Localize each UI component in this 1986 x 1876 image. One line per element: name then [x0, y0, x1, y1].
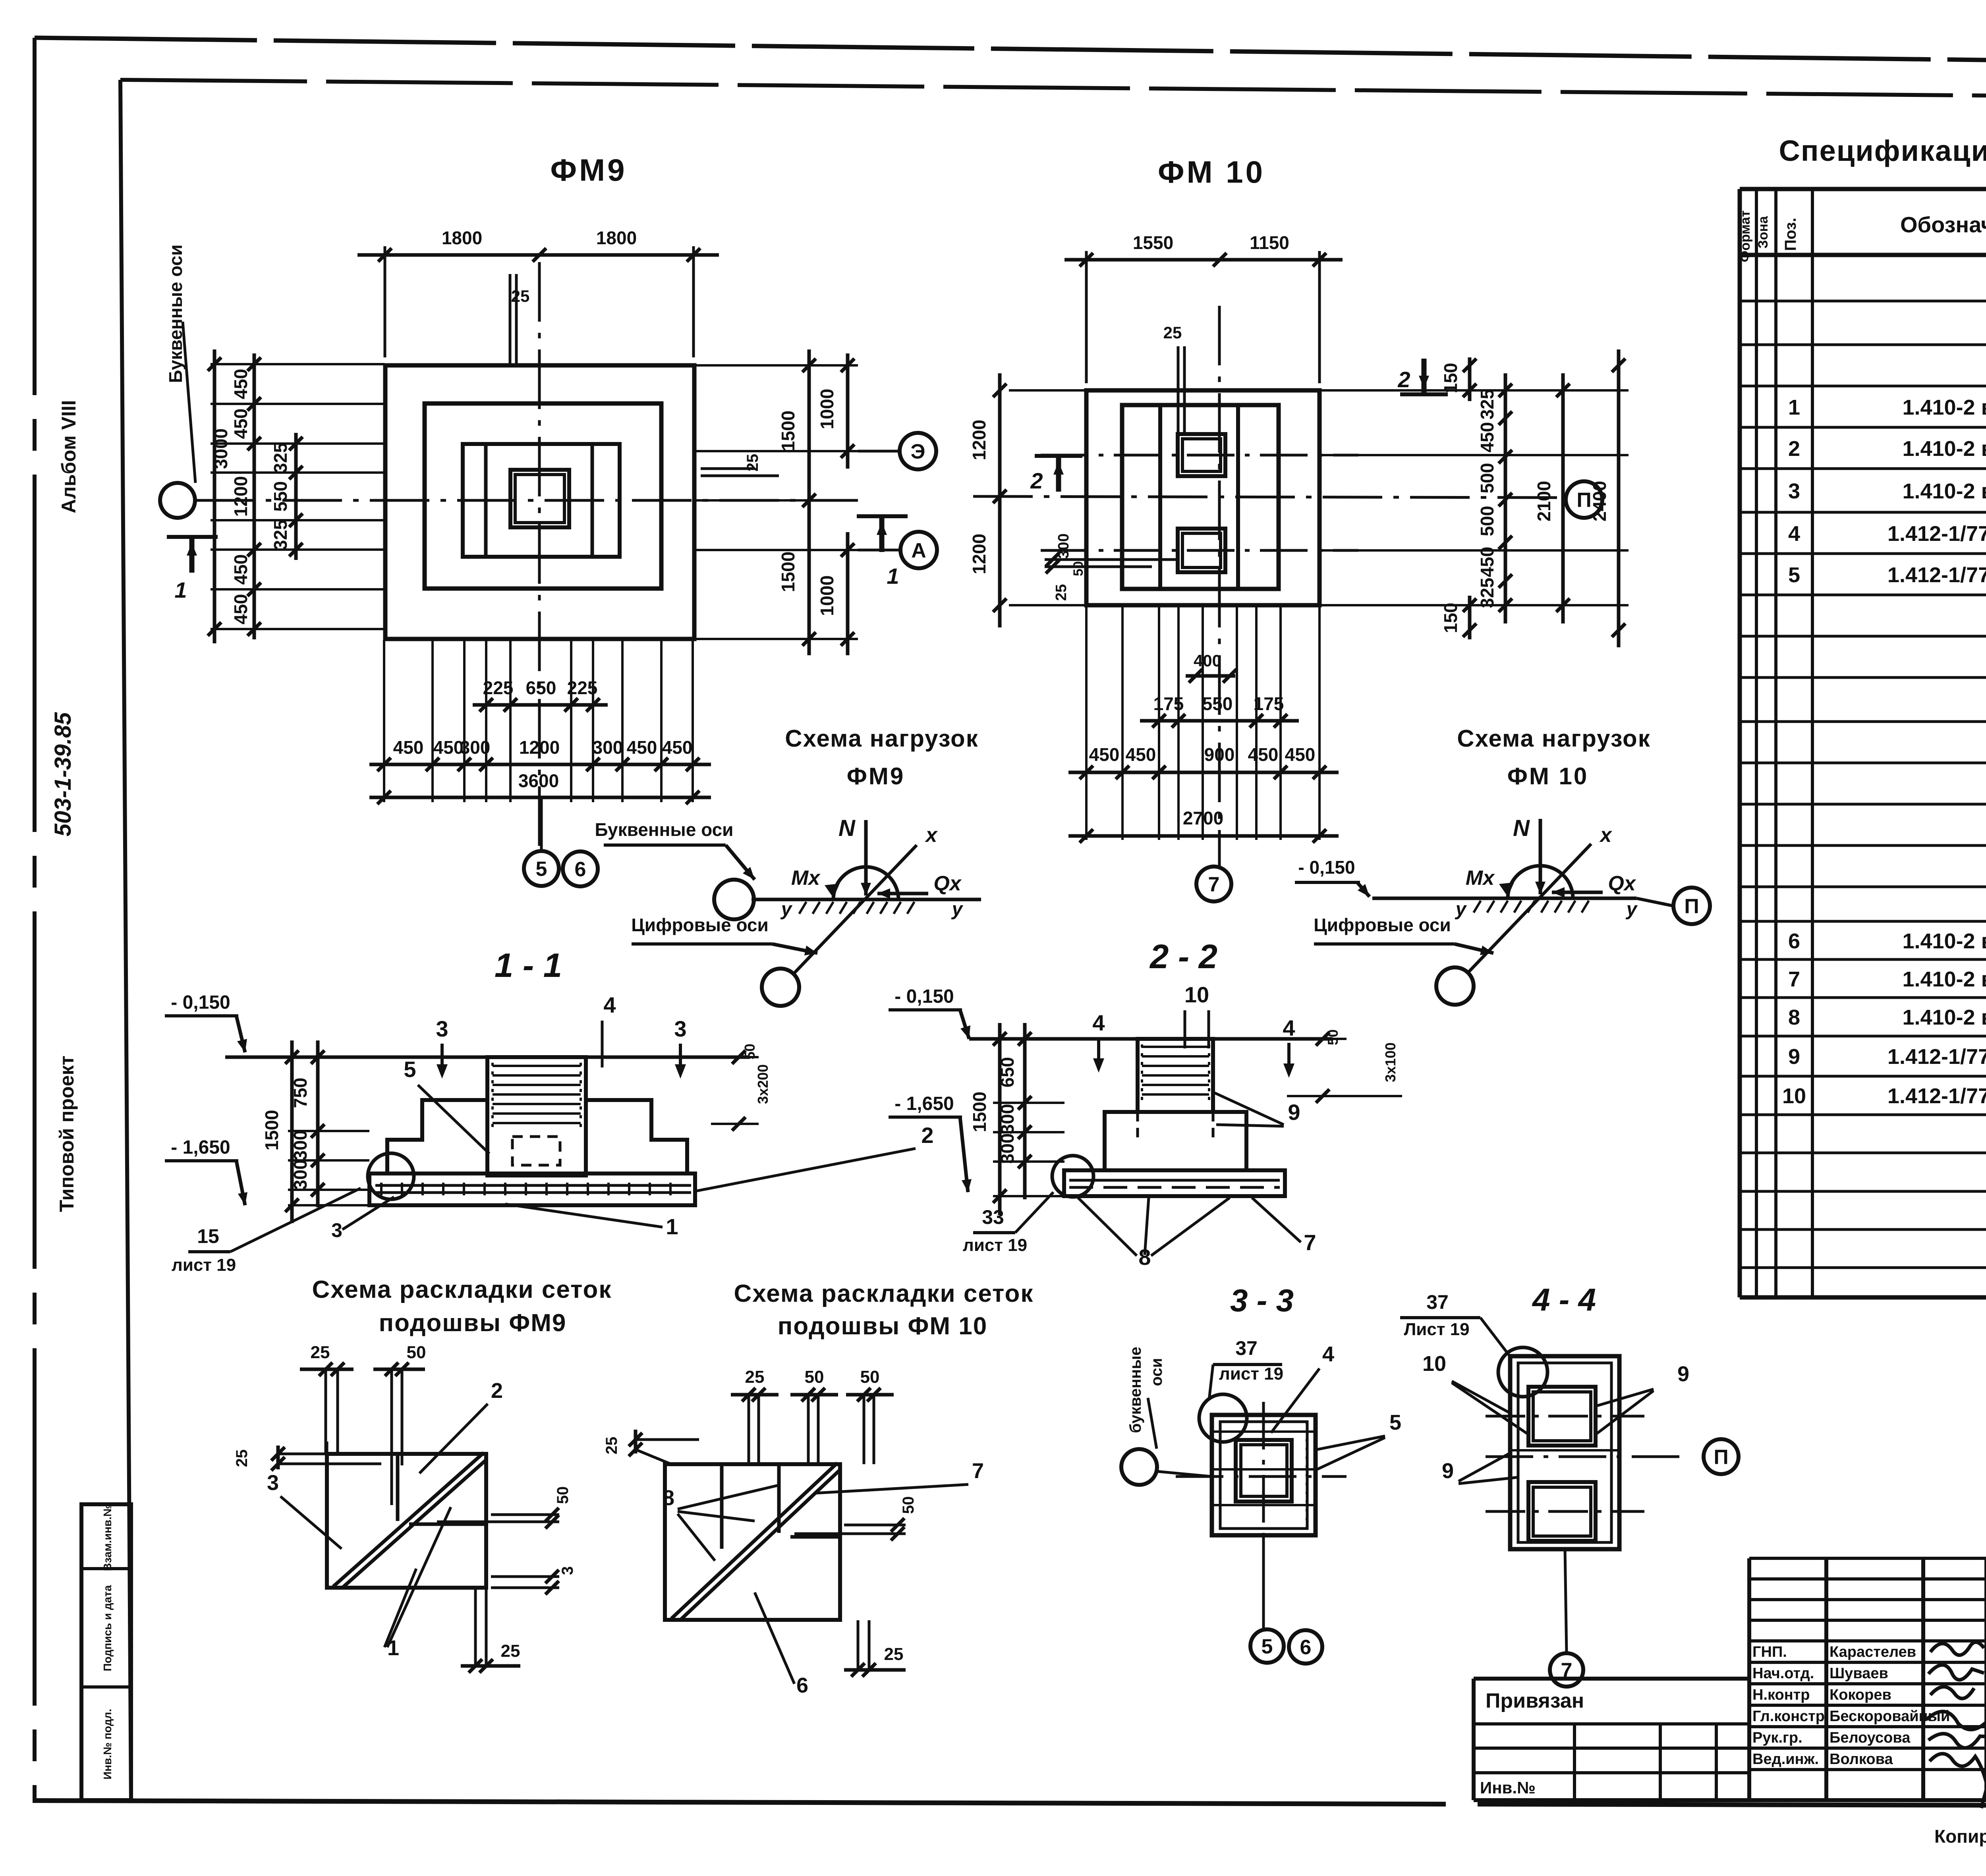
svg-text:300: 300 [593, 737, 623, 758]
svg-text:1550: 1550 [1133, 232, 1173, 253]
svg-text:50: 50 [805, 1367, 824, 1387]
svg-text:1: 1 [666, 1214, 678, 1239]
svg-text:2: 2 [1030, 468, 1043, 493]
svg-text:25: 25 [745, 1367, 765, 1387]
svg-text:9: 9 [1288, 1100, 1300, 1125]
svg-text:Карастелев: Карастелев [1830, 1644, 1916, 1660]
svg-text:15: 15 [197, 1225, 219, 1247]
svg-text:1800: 1800 [442, 228, 482, 248]
FM9 bottom dim 225-650-225 [473, 703, 608, 707]
svg-text:1.412-1/77 вып.3: 1.412-1/77 вып.3 [1887, 1084, 1986, 1108]
section mark 2 left [1056, 456, 1061, 492]
axis circle A [858, 549, 901, 552]
svg-text:50: 50 [1071, 561, 1086, 576]
svg-text:1.412-1/77 вып.3: 1.412-1/77 вып.3 [1887, 563, 1986, 587]
svg-text:50: 50 [1325, 1029, 1341, 1045]
svg-text:1200: 1200 [969, 420, 989, 460]
svg-text:550: 550 [1202, 693, 1233, 714]
svg-text:4 - 4: 4 - 4 [1532, 1282, 1596, 1317]
svg-text:450: 450 [1089, 744, 1120, 765]
sec33 outer square [1212, 1415, 1316, 1535]
FM10 upper column axis [1041, 454, 1358, 457]
svg-text:450: 450 [433, 737, 464, 758]
svg-text:450: 450 [627, 737, 657, 758]
Qx arrow [1552, 891, 1603, 894]
svg-text:175: 175 [1254, 693, 1284, 714]
FM9 left dim chain 3000 [213, 349, 216, 643]
left steps [387, 1100, 487, 1173]
svg-text:1.412-1/77 вып.3: 1.412-1/77 вып.3 [1887, 522, 1986, 546]
sec44 upper column square [1528, 1387, 1596, 1446]
svg-text:Взам.инв.№: Взам.инв.№ [101, 1504, 114, 1571]
svg-text:50: 50 [860, 1367, 880, 1387]
svg-text:450: 450 [230, 594, 251, 625]
svg-text:Спецификация фундаментов ФМ9,: Спецификация фундаментов ФМ9, ФМ 10 [1779, 134, 1986, 167]
svg-text:450: 450 [1477, 547, 1497, 577]
svg-text:3: 3 [436, 1016, 448, 1041]
svg-text:7: 7 [1788, 967, 1800, 991]
svg-text:1150: 1150 [1250, 232, 1289, 253]
svg-text:5: 5 [536, 858, 547, 881]
section mark 1 left [189, 537, 195, 573]
svg-text:1500: 1500 [778, 552, 798, 592]
svg-text:- 1,650: - 1,650 [171, 1137, 230, 1158]
FM9 middle step rectangle [425, 403, 661, 589]
FM9 vertical center axis [538, 262, 541, 851]
staff table [1747, 1558, 1751, 1800]
svg-text:450: 450 [1248, 744, 1279, 765]
svg-text:325: 325 [270, 443, 291, 473]
svg-text:37: 37 [1235, 1337, 1258, 1359]
svg-text:7: 7 [1208, 873, 1220, 896]
svg-text:лист 19: лист 19 [1219, 1364, 1283, 1384]
svg-text:3: 3 [674, 1016, 686, 1041]
svg-text:8: 8 [1788, 1006, 1800, 1029]
svg-text:А: А [911, 539, 926, 562]
svg-text:750: 750 [290, 1078, 311, 1108]
FM10 right 150 top [1468, 357, 1472, 401]
FM9 left dim chain 450s [253, 353, 256, 639]
svg-text:450: 450 [1126, 744, 1156, 765]
svg-text:3: 3 [1788, 479, 1800, 503]
svg-text:25: 25 [501, 1641, 520, 1661]
svg-text:3: 3 [267, 1471, 279, 1495]
svg-text:1 - 1: 1 - 1 [495, 947, 562, 984]
svg-text:50: 50 [554, 1486, 572, 1504]
right steps [586, 1100, 687, 1173]
svg-text:Схема раскладки сеток: Схема раскладки сеток [312, 1276, 612, 1303]
svg-text:1.410-2 вып.1: 1.410-2 вып.1 [1902, 437, 1986, 461]
axis circle P [1566, 481, 1602, 518]
digit axis circle on x diagonal [1436, 967, 1474, 1005]
FM10 bottom extension lines [1085, 606, 1088, 840]
moment Mx semicircle [1508, 866, 1573, 898]
svg-text:150: 150 [1440, 603, 1461, 633]
svg-text:3000: 3000 [211, 428, 231, 469]
svg-text:ФМ9: ФМ9 [847, 763, 905, 789]
svg-text:П: П [1684, 895, 1699, 918]
svg-text:Волкова: Волкова [1830, 1751, 1893, 1768]
sec33 letter axis circle [1121, 1449, 1157, 1485]
svg-text:300: 300 [1055, 533, 1072, 558]
svg-text:2 - 2: 2 - 2 [1149, 938, 1217, 976]
svg-text:Инв.№: Инв.№ [1480, 1778, 1536, 1797]
svg-text:Цифровые оси: Цифровые оси [1314, 915, 1451, 935]
Qx arrow [877, 892, 928, 896]
sec44 lower column square [1528, 1482, 1596, 1541]
svg-text:450: 450 [1285, 744, 1316, 765]
svg-text:3х100: 3х100 [1382, 1042, 1399, 1082]
FM9 inner step rectangle [463, 444, 620, 557]
middle step sec22 [1105, 1112, 1138, 1170]
svg-text:5: 5 [1788, 563, 1800, 587]
svg-text:6: 6 [1300, 1636, 1312, 1659]
FM10 right dim 2400 [1617, 349, 1621, 647]
svg-text:1500: 1500 [778, 411, 798, 451]
svg-text:Альбом VIII: Альбом VIII [58, 400, 80, 513]
FM10 right 150 bottom [1468, 596, 1472, 639]
svg-text:1: 1 [1788, 396, 1800, 419]
sheet border frame [35, 38, 1986, 67]
section 1-1 left dims [288, 1056, 369, 1058]
column stub dashed [512, 1137, 560, 1165]
svg-text:325: 325 [270, 520, 291, 550]
svg-text:Кокорев: Кокорев [1830, 1687, 1891, 1703]
svg-text:ФМ 10: ФМ 10 [1158, 154, 1265, 189]
x diagonal axis [794, 845, 917, 974]
FM10 upper column stub [1178, 434, 1225, 476]
detail circle sec22 [1052, 1156, 1093, 1197]
svg-text:7: 7 [972, 1459, 984, 1483]
svg-text:Буквенные оси: Буквенные оси [165, 245, 186, 383]
ground hatching [1474, 901, 1481, 913]
bottom-left stamp column [81, 1504, 131, 1800]
sec33 digit circles 5 6 [1262, 1535, 1265, 1629]
FM10 bottom dim 175-550-175 [1140, 719, 1299, 723]
FM9 right dim chain 1500/1500 [808, 349, 811, 655]
digit axis circle on x diagonal [762, 969, 799, 1006]
svg-text:2: 2 [921, 1123, 933, 1148]
svg-text:N: N [1513, 815, 1530, 841]
svg-text:5: 5 [404, 1057, 416, 1082]
FM9 inner mesh verticals [484, 444, 488, 557]
svg-text:25: 25 [311, 1343, 330, 1362]
svg-text:Копировал:: Копировал: [1934, 1826, 1986, 1847]
mesh FM10 diagonal double [671, 1463, 837, 1619]
sec44 detail circle top [1498, 1347, 1547, 1397]
section mark 2 right [1422, 359, 1427, 394]
svg-text:9: 9 [1788, 1045, 1800, 1069]
sec44 digit circle 7 [1565, 1549, 1567, 1653]
svg-text:буквенные: буквенные [1127, 1347, 1144, 1433]
svg-text:1200: 1200 [519, 737, 560, 758]
FM9 bottom extension lines [383, 640, 385, 802]
svg-text:8: 8 [663, 1486, 674, 1510]
svg-text:Qx: Qx [1608, 872, 1636, 895]
svg-text:ФМ9: ФМ9 [551, 152, 627, 187]
svg-text:Привязан: Привязан [1486, 1689, 1584, 1712]
sec33 axes [1176, 1475, 1347, 1478]
svg-text:Белоусова: Белоусова [1830, 1729, 1911, 1746]
svg-text:3: 3 [331, 1219, 342, 1241]
FM10 horizontal axis P [973, 496, 1565, 498]
svg-text:9: 9 [1677, 1362, 1689, 1386]
svg-text:9: 9 [1442, 1459, 1454, 1483]
svg-text:1000: 1000 [817, 389, 837, 429]
svg-text:325: 325 [1477, 578, 1497, 608]
FM9 schema letter-axis circle [714, 880, 754, 919]
svg-text:П: П [1576, 489, 1591, 512]
svg-text:1.410-2 вып.1: 1.410-2 вып.1 [1902, 967, 1986, 991]
svg-text:1.410-2 вып.1: 1.410-2 вып.1 [1902, 1006, 1986, 1029]
svg-text:Схема раскладки сеток: Схема раскладки сеток [734, 1280, 1034, 1307]
base slab with meshes [369, 1173, 695, 1205]
sec44 mesh frame [1518, 1363, 1611, 1542]
svg-text:2: 2 [491, 1379, 503, 1403]
FM10 bottom dim 450 chain [1068, 771, 1339, 774]
svg-text:900: 900 [1204, 744, 1235, 765]
svg-text:500: 500 [1477, 506, 1497, 537]
svg-text:10: 10 [1422, 1352, 1446, 1376]
svg-text:Цифровые оси: Цифровые оси [631, 915, 769, 935]
svg-text:ГНП.: ГНП. [1752, 1644, 1787, 1660]
svg-text:Рук.гр.: Рук.гр. [1752, 1729, 1802, 1746]
svg-text:450: 450 [230, 369, 251, 400]
svg-text:6: 6 [796, 1673, 808, 1697]
svg-text:7: 7 [1304, 1230, 1316, 1255]
N force arrow [864, 820, 868, 896]
svg-text:1.410-2 вып.1: 1.410-2 вып.1 [1902, 479, 1986, 503]
svg-text:1.410-2 вып.1: 1.410-2 вып.1 [1902, 396, 1986, 419]
svg-text:150: 150 [1440, 363, 1461, 394]
section mark 1 right [879, 516, 885, 552]
sec33 detail circle 37 [1199, 1394, 1247, 1442]
svg-text:у: у [1626, 899, 1638, 920]
svg-text:у: у [1455, 899, 1467, 920]
svg-text:450: 450 [662, 737, 693, 758]
svg-text:2700: 2700 [1183, 808, 1223, 828]
svg-text:3 - 3: 3 - 3 [1230, 1283, 1294, 1318]
FM10 outer footprint 2700x2100 [1086, 390, 1319, 605]
svg-text:3: 3 [559, 1566, 576, 1575]
svg-text:лист 19: лист 19 [172, 1255, 236, 1275]
svg-text:1500: 1500 [969, 1092, 990, 1132]
svg-text:Буквенные оси: Буквенные оси [595, 819, 734, 840]
svg-text:Обозначение: Обозначение [1900, 212, 1986, 237]
mesh FM9 inner horizontal [409, 1523, 486, 1526]
FM10 right dim chain 325-450-500-500-450-325 [1504, 373, 1507, 623]
svg-text:Шуваев: Шуваев [1830, 1665, 1888, 1682]
svg-text:500: 500 [1477, 463, 1497, 494]
pedestal with mesh cage [487, 1057, 586, 1175]
FM10 inner rectangle [1122, 405, 1279, 589]
svg-text:Схема нагрузок: Схема нагрузок [1457, 725, 1650, 752]
FM9 top dimension 1800+1800 [384, 246, 386, 357]
svg-text:4: 4 [1788, 522, 1800, 546]
svg-text:175: 175 [1153, 693, 1184, 714]
svg-text:450: 450 [230, 409, 251, 439]
svg-text:N: N [838, 815, 856, 841]
svg-text:2100: 2100 [1534, 481, 1554, 521]
ground top line sec22 [969, 1037, 1333, 1041]
svg-text:450: 450 [230, 554, 251, 585]
svg-text:- 0,150: - 0,150 [171, 992, 230, 1013]
svg-text:5: 5 [1262, 1635, 1273, 1658]
svg-text:503-1-39.85: 503-1-39.85 [50, 712, 76, 837]
svg-text:x: x [925, 824, 938, 847]
base slab sec22 [1064, 1170, 1285, 1196]
mesh FM9 diagonal double [333, 1453, 484, 1586]
mesh FM10 square [665, 1464, 840, 1620]
svg-text:Лист 19: Лист 19 [1404, 1320, 1469, 1339]
svg-text:1: 1 [174, 577, 187, 602]
svg-text:5: 5 [1389, 1411, 1401, 1434]
svg-text:25: 25 [233, 1449, 251, 1467]
svg-text:33: 33 [982, 1206, 1004, 1228]
svg-text:10: 10 [1184, 982, 1209, 1007]
svg-text:1500: 1500 [261, 1110, 282, 1150]
FM9 horizontal center axis [195, 499, 858, 502]
ground line [752, 898, 981, 901]
sec44 outer rect [1510, 1356, 1619, 1549]
svg-text:25: 25 [603, 1437, 620, 1455]
mesh FM9 dashed edges [314, 1453, 327, 1455]
svg-text:50: 50 [900, 1496, 917, 1514]
svg-text:37: 37 [1426, 1291, 1449, 1313]
svg-text:4: 4 [1092, 1010, 1105, 1035]
svg-text:450: 450 [393, 737, 424, 758]
svg-text:Типовой проект: Типовой проект [56, 1056, 78, 1212]
spec table grid [1738, 189, 1742, 1297]
svg-text:Нач.отд.: Нач.отд. [1752, 1665, 1814, 1682]
svg-text:25: 25 [1163, 323, 1182, 342]
svg-text:Схема нагрузок: Схема нагрузок [785, 725, 978, 752]
svg-text:2: 2 [1788, 437, 1800, 461]
svg-text:300: 300 [997, 1133, 1018, 1164]
sec33 mesh frame [1220, 1422, 1307, 1529]
FM9 outer footprint 3600x3000 [385, 365, 694, 639]
svg-text:300: 300 [460, 737, 491, 758]
privyazan box [1474, 1677, 1749, 1681]
svg-text:50: 50 [407, 1343, 426, 1362]
svg-text:П: П [1714, 1446, 1728, 1469]
FM9 right extension lines [695, 364, 858, 367]
FM10 left extension lines [1009, 389, 1086, 392]
svg-text:- 0,150: - 0,150 [894, 986, 954, 1007]
svg-text:650: 650 [997, 1057, 1018, 1088]
FM10 vertical center axis [1218, 306, 1221, 867]
ground line [1372, 897, 1636, 900]
pedestal with mesh cage sec22 [1138, 1039, 1213, 1112]
axis circle E [858, 450, 900, 453]
section 2-2 left dims [993, 1038, 1064, 1040]
sec33 column square [1236, 1440, 1292, 1502]
svg-text:6: 6 [1788, 929, 1800, 953]
svg-text:лист 19: лист 19 [963, 1235, 1027, 1255]
mesh FM10 inner verticals [720, 1464, 724, 1549]
svg-text:- 1,650: - 1,650 [894, 1093, 954, 1114]
svg-text:Формат: Формат [1738, 210, 1753, 262]
mesh FM9 inner vertical [396, 1454, 400, 1521]
svg-text:3х200: 3х200 [755, 1064, 771, 1104]
FM9 left extension lines [211, 363, 384, 365]
svg-text:у: у [951, 899, 964, 920]
FM10 inner verticals [1158, 405, 1162, 589]
FM9 left letter-axis circle [160, 483, 195, 518]
x diagonal axis [1468, 844, 1591, 973]
FM10 left dim chain 1200/1200 [998, 373, 1002, 627]
svg-text:225: 225 [483, 677, 514, 698]
svg-text:Qx: Qx [933, 872, 962, 895]
svg-text:оси: оси [1148, 1358, 1165, 1386]
FM9 column stub [510, 470, 569, 527]
FM10 top dim 1550+1150 [1085, 251, 1088, 383]
FM10 lower column stub [1178, 529, 1225, 572]
svg-text:25: 25 [1053, 584, 1070, 601]
svg-text:300: 300 [997, 1104, 1018, 1135]
digit axis circles 5 and 6 [540, 798, 543, 851]
svg-text:Э: Э [911, 440, 925, 463]
svg-text:x: x [1599, 824, 1613, 847]
FM10 bottom dim 2700 [1068, 834, 1339, 838]
svg-text:Вед.инж.: Вед.инж. [1752, 1751, 1819, 1768]
sec44 axis circle P [1704, 1439, 1739, 1474]
ground top line [225, 1056, 750, 1059]
svg-text:Н.контр: Н.контр [1752, 1687, 1810, 1703]
svg-text:450: 450 [1477, 422, 1497, 453]
svg-text:300: 300 [290, 1130, 311, 1161]
svg-text:у: у [780, 899, 793, 920]
svg-text:325: 325 [1477, 389, 1497, 420]
FM9 left dim chain 325-550-325 [294, 433, 298, 560]
FM10 right extension lines [1321, 389, 1629, 392]
svg-text:Mx: Mx [791, 867, 821, 890]
axis circle P at ground line end [1636, 898, 1673, 906]
svg-text:6: 6 [575, 858, 586, 881]
signatures squiggles [1930, 1642, 1984, 1655]
svg-text:25: 25 [511, 287, 530, 305]
FM10 lower column axis [1041, 549, 1358, 552]
FM9 right dim chain 1000 lower [846, 532, 850, 655]
FM10 leader lines into lower stub [1045, 558, 1177, 561]
moment Mx semicircle [833, 867, 898, 899]
svg-text:подошвы ФМ9: подошвы ФМ9 [379, 1309, 567, 1337]
svg-text:400: 400 [1194, 651, 1221, 670]
svg-text:Mx: Mx [1466, 867, 1495, 890]
svg-text:650: 650 [526, 677, 556, 698]
FM9 bottom dim 3600 [369, 796, 711, 799]
FM10 right dim 2100 [1561, 373, 1565, 623]
svg-text:1.412-1/77 вып.3: 1.412-1/77 вып.3 [1887, 1045, 1986, 1069]
svg-text:1200: 1200 [969, 534, 989, 574]
sec44 axes [1486, 1415, 1644, 1418]
svg-text:Подпись и дата: Подпись и дата [101, 1585, 114, 1671]
svg-text:25: 25 [884, 1644, 904, 1664]
svg-text:4: 4 [1322, 1342, 1334, 1366]
digit axis circle 7 [1196, 867, 1231, 901]
svg-text:Гл.констр: Гл.констр [1752, 1708, 1825, 1725]
svg-text:1.410-2 вып.1: 1.410-2 вып.1 [1902, 929, 1986, 953]
svg-text:1: 1 [887, 564, 899, 589]
svg-text:3600: 3600 [518, 770, 559, 791]
FM9 right dim chain 1000 upper [846, 353, 850, 469]
svg-text:1800: 1800 [596, 228, 637, 248]
svg-text:Инв.№ подл.: Инв.№ подл. [101, 1709, 114, 1779]
svg-text:2: 2 [1397, 367, 1410, 392]
ground hatching [799, 902, 806, 914]
svg-text:225: 225 [567, 677, 598, 698]
svg-text:Поз.: Поз. [1782, 218, 1799, 251]
